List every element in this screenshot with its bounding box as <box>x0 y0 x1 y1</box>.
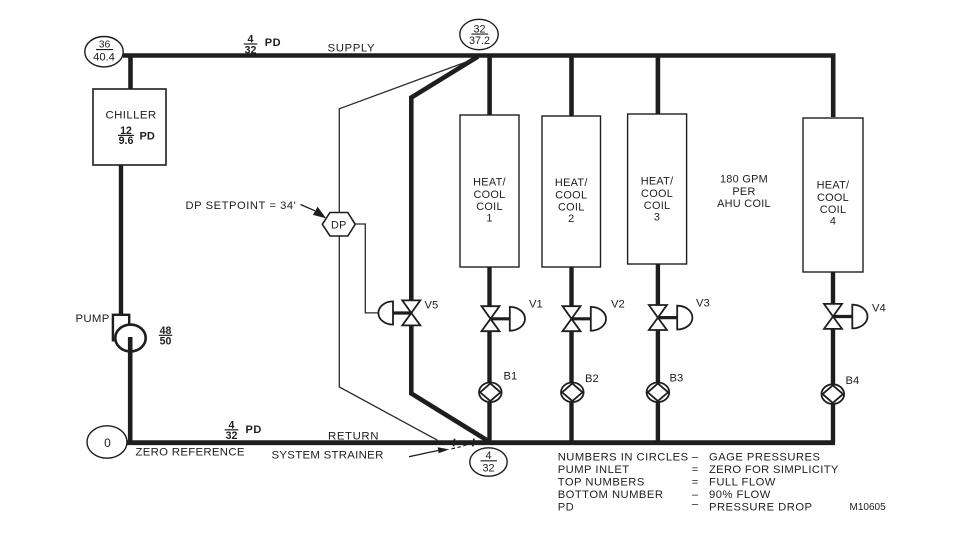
svg-text:V1: V1 <box>529 299 543 311</box>
svg-text:V5: V5 <box>425 300 439 312</box>
svg-text:36: 36 <box>99 40 111 51</box>
svg-text:V4: V4 <box>872 303 886 315</box>
svg-text:SYSTEM STRAINER: SYSTEM STRAINER <box>272 450 384 462</box>
DP hexagon <box>322 213 355 237</box>
valve V1 <box>482 306 526 331</box>
svg-text:=: = <box>692 464 699 476</box>
svg-text:COOL: COOL <box>555 189 587 201</box>
pipe: valve V3 to return (through B3) <box>656 330 660 442</box>
coil 3 box <box>628 114 687 264</box>
svg-text:M10605: M10605 <box>850 502 887 513</box>
pipe: valve V1 to return (through B1) <box>487 331 491 442</box>
coil 2 box <box>542 116 601 267</box>
svg-text:HEAT/: HEAT/ <box>641 176 674 188</box>
svg-text:37.2: 37.2 <box>469 35 490 47</box>
gauge circle 0 <box>87 426 127 458</box>
svg-text:CHILLER: CHILLER <box>106 110 157 122</box>
svg-text:B1: B1 <box>504 371 518 383</box>
valve V4 <box>824 304 868 329</box>
svg-text:PD: PD <box>558 501 575 513</box>
svg-text:DP SETPOINT = 34': DP SETPOINT = 34' <box>186 200 297 212</box>
pipe: bypass from supply junction to valve V5 <box>411 57 478 301</box>
pipe: coil 2 to valve V2 <box>569 266 573 306</box>
pipe: supply riser to coil 2 <box>569 56 574 118</box>
pipe: valve V2 to return (through B2) <box>569 331 573 442</box>
system strainer ticks <box>454 439 455 447</box>
svg-text:TOP NUMBERS: TOP NUMBERS <box>558 477 645 489</box>
svg-text:AHU COIL: AHU COIL <box>717 198 771 210</box>
svg-text:4: 4 <box>485 450 491 462</box>
svg-text:32: 32 <box>482 463 494 475</box>
svg-text:B2: B2 <box>585 373 599 385</box>
svg-text:BOTTOM NUMBER: BOTTOM NUMBER <box>558 489 664 501</box>
svg-text:V2: V2 <box>611 299 625 311</box>
sensing line: supply tap to DP hexagon <box>339 59 475 213</box>
valve V3 <box>649 305 693 330</box>
control line: DP hexagon output to valve V5 actuator <box>355 224 381 313</box>
svg-text:PRESSURE DROP: PRESSURE DROP <box>709 501 812 513</box>
balance valve B4 <box>822 384 845 404</box>
pump body <box>115 325 145 352</box>
gauge circle 4/32 <box>470 448 507 476</box>
svg-text:COOL: COOL <box>641 188 673 200</box>
svg-text:FULL FLOW: FULL FLOW <box>709 477 776 489</box>
svg-text:DP: DP <box>331 220 347 232</box>
svg-text:32: 32 <box>226 430 238 442</box>
pipe: supply riser to coil 3 <box>656 56 661 116</box>
pipe: coil 1 to valve V1 <box>487 266 491 306</box>
pipe: supply main from gauge to coil 4 drop <box>123 56 833 118</box>
pipe: coil 3 to valve V3 <box>656 263 660 305</box>
pipe: chiller to pump inlet <box>119 164 123 316</box>
valve V2 <box>563 306 607 331</box>
svg-text:180 GPM: 180 GPM <box>720 174 768 186</box>
balance valve B2 <box>561 383 584 403</box>
svg-text:COOL: COOL <box>817 192 849 204</box>
svg-text:GAGE PRESSURES: GAGE PRESSURES <box>709 451 820 463</box>
svg-text:PUMP: PUMP <box>76 313 110 325</box>
pump tab <box>113 315 129 341</box>
svg-text:HEAT/: HEAT/ <box>473 177 506 189</box>
pipe: coil 4 to valve V4 <box>831 271 835 304</box>
svg-text:COIL: COIL <box>820 204 847 216</box>
svg-text:3: 3 <box>654 212 660 224</box>
svg-text:–: – <box>692 451 699 463</box>
gauge circle 32/37.2 <box>460 19 498 49</box>
svg-text:–: – <box>692 498 699 510</box>
svg-text:PD: PD <box>246 424 262 436</box>
coil 4 box <box>803 118 863 272</box>
svg-text:50: 50 <box>160 336 172 348</box>
svg-text:PER: PER <box>732 186 755 198</box>
svg-text:COOL: COOL <box>473 189 505 201</box>
svg-text:HEAT/: HEAT/ <box>555 177 588 189</box>
svg-text:PD: PD <box>265 37 281 49</box>
svg-text:NUMBERS IN CIRCLES: NUMBERS IN CIRCLES <box>558 451 689 463</box>
svg-text:40.4: 40.4 <box>93 52 115 64</box>
svg-text:2: 2 <box>568 213 574 225</box>
chiller box <box>93 89 166 165</box>
svg-text:1: 1 <box>486 213 492 225</box>
svg-text:4: 4 <box>830 216 836 228</box>
svg-text:B3: B3 <box>670 373 684 385</box>
svg-text:9.6: 9.6 <box>119 135 134 147</box>
svg-text:V3: V3 <box>696 298 710 310</box>
svg-text:=: = <box>692 477 699 489</box>
pipe: valve V4 to return (through B4) <box>831 329 835 442</box>
svg-text:32: 32 <box>245 44 257 56</box>
pipe: supply riser to coil 1 <box>487 56 492 117</box>
DP setpoint leader arrow <box>301 205 316 211</box>
pipe: supply drop to chiller <box>128 56 133 91</box>
sensing line: DP hexagon to return tap <box>339 236 437 440</box>
svg-text:0: 0 <box>104 436 111 450</box>
pipe: return main <box>127 440 835 445</box>
valve V5 (actuator on left) <box>378 300 420 325</box>
svg-text:B4: B4 <box>846 375 860 387</box>
svg-text:ZERO REFERENCE: ZERO REFERENCE <box>136 446 245 458</box>
svg-text:PUMP INLET: PUMP INLET <box>558 464 630 476</box>
balance valve B3 <box>647 383 670 403</box>
svg-text:COIL: COIL <box>644 200 671 212</box>
svg-text:COIL: COIL <box>558 201 585 213</box>
pipe: pump outlet to return <box>128 337 133 442</box>
svg-text:HEAT/: HEAT/ <box>817 180 850 192</box>
gauge circle 36/40.4 <box>85 37 123 67</box>
pipe: valve V5 to return junction <box>411 325 489 441</box>
svg-text:ZERO FOR SIMPLICITY: ZERO FOR SIMPLICITY <box>709 464 839 476</box>
svg-text:PD: PD <box>140 131 155 143</box>
svg-text:RETURN: RETURN <box>328 430 379 442</box>
svg-text:COIL: COIL <box>476 201 503 213</box>
system strainer arrow <box>409 451 438 457</box>
coil 1 box <box>460 115 519 267</box>
svg-text:SUPPLY: SUPPLY <box>328 42 376 54</box>
svg-text:90% FLOW: 90% FLOW <box>709 489 771 501</box>
balance valve B1 <box>479 383 502 403</box>
